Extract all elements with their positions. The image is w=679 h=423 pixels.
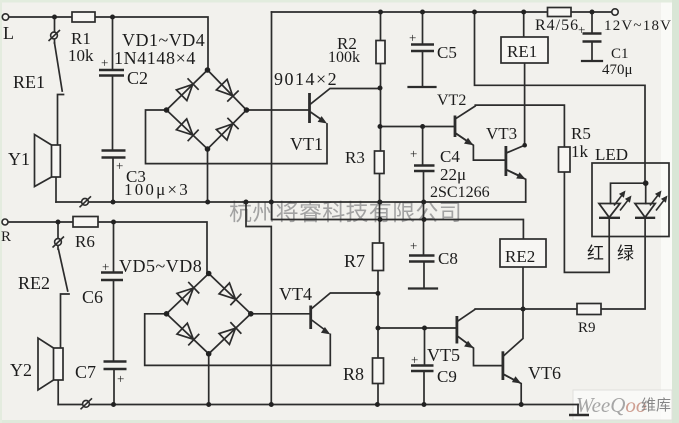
capacitor C2 plates	[99, 70, 124, 76]
wire VT4 base from bridge2 right	[251, 313, 310, 315]
wire bridge1 bottom to ground rail	[207, 149, 209, 202]
transistor VT5 base bar	[455, 316, 458, 344]
svg-text:VT1: VT1	[290, 134, 323, 154]
junction VT2 base / R2-R3	[378, 124, 383, 129]
svg-text:C9: C9	[437, 367, 457, 386]
diode VD5 bridge2 top-left	[177, 282, 200, 305]
svg-text:杭州将睿科技有限公司: 杭州将睿科技有限公司	[229, 200, 462, 225]
speaker Y2	[38, 338, 63, 390]
junction supply rail / LED feed	[472, 10, 477, 15]
svg-text:VT6: VT6	[528, 363, 561, 383]
wire supply drop x271 and relay line to RE2	[272, 12, 524, 239]
svg-text:LED: LED	[595, 145, 628, 164]
wire VT3 emitter to ground rail	[507, 170, 526, 202]
LED green emission arrows	[650, 191, 668, 211]
wire L input rail	[9, 17, 209, 70]
svg-text:C7: C7	[75, 362, 96, 382]
node bridge1 bottom	[205, 146, 211, 152]
VT4 emitter arrow	[312, 320, 325, 330]
resistor R7	[373, 243, 384, 271]
svg-text:C5: C5	[437, 43, 457, 62]
svg-text:1k: 1k	[571, 142, 589, 161]
terminal L	[2, 14, 8, 20]
svg-text:L: L	[3, 23, 14, 43]
wire switch lower contact to speaker Y1	[58, 95, 64, 146]
VT6 emitter arrow	[504, 375, 515, 381]
wire switch drop R	[57, 222, 59, 249]
VT1 emitter arrow	[311, 112, 323, 120]
svg-text:C2: C2	[127, 68, 148, 88]
diode VD4 bridge1 bottom-right	[216, 118, 239, 141]
capacitor C5 plates	[411, 45, 434, 52]
bridge VD1-VD4 diamond	[167, 70, 247, 149]
junction ground rail / bridge1	[205, 200, 210, 205]
diode VD2 bridge1 top-right	[216, 79, 239, 102]
svg-text:VD1~VD4: VD1~VD4	[122, 30, 205, 50]
capacitor C7 plates	[104, 362, 127, 370]
terminal 12V supply	[612, 9, 618, 15]
junction RE2 / VT5 VT6 collectors / R9	[521, 307, 526, 312]
junction VT5 base / C9	[422, 326, 427, 331]
wire VT2 collector to R5	[456, 105, 564, 147]
wire R2 R3 R7 R8 column	[378, 12, 381, 405]
node bridge2 left	[164, 311, 170, 317]
node bridge2 bottom	[206, 351, 212, 357]
svg-text:VT2: VT2	[437, 92, 466, 109]
C5 bottom bar	[409, 86, 436, 88]
wire supply to LED box anode line	[475, 12, 646, 183]
svg-text:维库: 维库	[641, 397, 671, 414]
wire VT2 base	[380, 126, 454, 128]
C8 bottom bar	[409, 287, 437, 289]
wire ground dogleg to R channel	[246, 202, 271, 405]
junction R rail / switch	[56, 220, 61, 225]
svg-text:+: +	[102, 259, 109, 274]
node bridge1 left	[164, 107, 170, 113]
diode VD7 bridge2 bottom-left	[177, 323, 200, 346]
svg-text:+: +	[410, 238, 417, 253]
junction bottom rail / VT6 emitter	[519, 402, 524, 407]
junction bottom rail / x271 column	[269, 402, 274, 407]
junction supply rail / RE1	[521, 10, 526, 15]
terminal R	[2, 219, 8, 225]
svg-text:9014×2: 9014×2	[274, 69, 338, 89]
capacitor C1 plates	[583, 34, 602, 42]
svg-text:+: +	[410, 146, 417, 161]
wire VT2 emitter to VT3 base	[456, 134, 505, 161]
svg-text:Y2: Y2	[10, 360, 32, 380]
svg-text:12V~18V: 12V~18V	[604, 18, 672, 34]
wire supply rail top	[272, 11, 612, 13]
wire ground rail R channel	[58, 404, 578, 406]
svg-text:+: +	[117, 371, 124, 386]
junction ground rail / x271 column	[269, 200, 274, 205]
wire bridge1 left to VT1 emitter loop	[146, 110, 328, 164]
resistor R4/56	[548, 8, 572, 17]
switch RE2 contact blade	[59, 250, 68, 292]
wire VT5 collector	[458, 309, 523, 321]
capacitor C4 plates	[414, 166, 435, 172]
svg-text:RE1: RE1	[13, 72, 45, 92]
transistor VT4 base bar	[309, 306, 312, 330]
junction L rail / C2	[110, 15, 115, 20]
wire bridge1 top feed	[207, 69, 209, 71]
transistor VT6 base bar	[501, 351, 504, 380]
junction relay line / R7 column	[378, 217, 383, 222]
junction bottom rail / C7	[111, 402, 116, 407]
cable slash mark R bottom	[81, 398, 93, 409]
svg-text:红: 红	[587, 244, 604, 263]
wire speaker Y1 bottom to ground rail	[55, 177, 57, 202]
VT3 emitter arrow	[507, 170, 519, 176]
svg-text:C1: C1	[611, 46, 629, 62]
svg-text:22μ: 22μ	[440, 165, 466, 184]
junction ground rail / R3	[377, 200, 382, 205]
junction VT5 base / R7-R8	[376, 326, 381, 331]
svg-text:+: +	[411, 352, 418, 367]
junction ground rail / dogleg	[244, 200, 249, 205]
wire R5 to red LED cathode	[564, 172, 609, 272]
svg-text:绿: 绿	[617, 244, 634, 263]
wire RE1 coil top	[523, 12, 525, 37]
wire C1 column	[591, 12, 593, 61]
svg-text:2SC1266: 2SC1266	[430, 184, 490, 201]
VT5 emitter arrow	[458, 337, 468, 345]
svg-text:10k: 10k	[68, 46, 94, 65]
wire green LED cathode to R9 line	[523, 217, 645, 309]
resistor R8	[373, 358, 384, 384]
wire VT5 emitter to VT6 base	[458, 337, 502, 366]
svg-text:R: R	[1, 229, 11, 245]
wire C6 C7 column	[113, 222, 116, 405]
ground symbol stem	[577, 405, 579, 416]
svg-text:R4/56: R4/56	[535, 17, 579, 34]
svg-text:1N4148×4: 1N4148×4	[114, 48, 196, 68]
junction ground rail / C3	[111, 200, 116, 205]
svg-text:RE1: RE1	[507, 42, 537, 61]
edge tint strips	[0, 0, 679, 3]
svg-text:R3: R3	[345, 148, 365, 167]
switch RE1 contact blade	[55, 43, 63, 91]
resistor R6	[73, 217, 98, 228]
svg-text:+: +	[409, 30, 416, 45]
resistor R9	[577, 304, 601, 315]
svg-text:VD5~VD8: VD5~VD8	[119, 256, 202, 276]
transistor VT1 base bar	[308, 93, 311, 123]
junction L rail / switch	[52, 15, 57, 20]
ground symbol bar	[569, 414, 589, 417]
diode VD6 bridge2 top-right	[219, 283, 242, 306]
wire C5 column	[422, 12, 424, 87]
wire VT1 collector	[311, 89, 381, 105]
junction bottom rail / C9	[422, 402, 427, 407]
wire RE2 bottom	[522, 267, 524, 309]
relay coil box RE2	[500, 239, 546, 267]
resistor R5	[559, 147, 571, 172]
wire R input rail	[8, 222, 208, 274]
resistor R3	[375, 151, 385, 174]
wire VT4 collector	[312, 293, 378, 309]
wire switch lower contact to speaker Y2	[61, 294, 70, 348]
junction supply rail / R2	[378, 10, 383, 15]
diode VD8 bridge2 bottom-right	[219, 322, 242, 345]
svg-text:100μ×3: 100μ×3	[124, 180, 190, 199]
svg-text:+: +	[578, 22, 585, 37]
wire VT1 base from bridge1 right	[247, 109, 309, 111]
svg-text:VT4: VT4	[279, 284, 312, 304]
wire bridge2 bottom to ground rail	[208, 354, 210, 405]
LED red (红) triangle and bar	[599, 204, 620, 218]
junction VT1 collector / R2-R3	[378, 86, 383, 91]
VT2 emitter arrow	[456, 134, 467, 142]
cable slash mark L bottom	[80, 196, 92, 207]
wire VT6 emitter	[504, 375, 521, 405]
svg-text:VT5: VT5	[427, 345, 460, 365]
node bridge2 top	[206, 271, 212, 277]
junction bottom rail / bridge2	[206, 402, 211, 407]
wire bridge2 left to VT4 emitter loop	[145, 314, 331, 366]
wire ground rail L channel	[56, 201, 526, 203]
wire VT5 base	[378, 327, 456, 329]
junction bottom rail / R8	[375, 402, 380, 407]
svg-text:+: +	[101, 55, 108, 70]
capacitor C6 plates	[101, 273, 123, 281]
resistor R2	[376, 41, 385, 64]
junction ground rail / C4 column	[421, 200, 426, 205]
wire C9 column	[423, 328, 426, 405]
junction LED anodes	[643, 180, 649, 186]
wire RE1 bottom to VT3 collector node	[524, 63, 526, 145]
LED enclosure box	[592, 163, 669, 237]
junction supply rail / C5	[420, 10, 425, 15]
cable slash mark R top	[53, 237, 65, 248]
C1 bottom bar	[582, 60, 602, 62]
LED inner anode wires	[611, 183, 646, 203]
wire VT6 collector	[504, 309, 523, 356]
watermark WeeQoo box	[573, 390, 672, 420]
svg-text:RE2: RE2	[505, 247, 535, 266]
LED red emission arrows	[614, 191, 632, 211]
LED green (绿) triangle and bar	[635, 204, 655, 218]
cable slash mark L top	[49, 30, 61, 41]
junction relay line / C8 column	[422, 217, 427, 222]
transistor VT2 base bar	[454, 116, 457, 138]
svg-text:R7: R7	[344, 251, 365, 271]
junction VT2 base / C4	[420, 124, 425, 129]
capacitor C9 plates	[411, 366, 434, 372]
wire speaker Y2 bottom to ground rail	[57, 380, 59, 405]
svg-text:WeeQoo: WeeQoo	[576, 393, 646, 417]
diode VD3 bridge1 bottom-left	[176, 119, 199, 142]
wire VT3 collector diag	[507, 145, 525, 153]
node bridge1 top	[205, 67, 211, 73]
capacitor C8 plates	[409, 256, 435, 262]
svg-text:VT3: VT3	[486, 124, 517, 143]
svg-text:R8: R8	[343, 364, 364, 384]
node bridge2 right	[248, 311, 254, 317]
relay coil box RE1	[501, 37, 548, 63]
junction R rail / C6	[111, 220, 116, 225]
capacitor C3 plates	[102, 151, 126, 158]
bridge VD5-VD8 diamond	[167, 274, 251, 354]
junction VT3 collector / RE1	[522, 143, 527, 148]
transistor VT3 base bar	[504, 146, 507, 176]
wire C4 C8 column	[423, 127, 424, 289]
svg-text:R5: R5	[571, 124, 591, 143]
svg-text:Y1: Y1	[8, 149, 30, 169]
node bridge1 right	[244, 107, 250, 113]
svg-text:R9: R9	[578, 320, 596, 336]
svg-text:+: +	[116, 158, 123, 173]
svg-text:RE2: RE2	[18, 273, 50, 293]
svg-text:C4: C4	[440, 147, 460, 166]
wire switch drop L	[54, 17, 56, 43]
svg-text:100k: 100k	[328, 49, 360, 66]
svg-text:C8: C8	[438, 249, 458, 268]
junction VT4 collector / R7-R8	[376, 291, 381, 296]
wire C2 C3 column	[112, 17, 115, 202]
svg-text:C6: C6	[82, 287, 103, 307]
svg-text:R6: R6	[75, 232, 95, 251]
resistor R1	[72, 12, 95, 22]
svg-text:470μ: 470μ	[602, 62, 633, 78]
speaker Y1	[35, 135, 61, 187]
capacitor polarity plus signs	[101, 30, 418, 386]
junction supply rail / C1	[590, 10, 595, 15]
diode VD1 bridge1 top-left	[176, 78, 199, 101]
